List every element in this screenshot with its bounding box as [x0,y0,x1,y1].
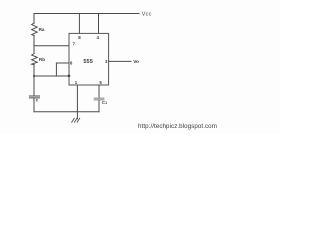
wire pin 5 branch [98,85,100,112]
svg-text:555: 555 [83,59,92,65]
svg-text:Rb: Rb [39,57,45,62]
wire rail pin2 junction to capacitor C [33,76,35,96]
svg-text:Vcc: Vcc [142,11,152,17]
wire pin 6 vertical drop [55,63,57,76]
svg-text:C1: C1 [102,100,107,105]
capacitor C plates [29,96,39,98]
wire pin 6 horizontal [56,62,69,64]
wire pin 8 [78,14,80,34]
node junction dot pin2 rail [33,75,35,77]
wire pin 1 to ground [76,85,78,119]
svg-text:Vo: Vo [133,59,139,65]
wire Vcc top rail [34,13,139,15]
wire capacitor C to bottom rail [33,98,35,112]
wire pin 3 output [109,60,131,62]
wire Rb to pin2 junction [33,65,35,76]
resistor Ra [32,23,38,36]
op-amp U1 555 IC body [69,33,109,85]
svg-text:http://techpicz.blogspot.com: http://techpicz.blogspot.com [138,123,217,130]
wire pin 7 [34,45,69,47]
wire rail pin7 to Rb [33,46,35,54]
svg-text:6: 6 [70,61,73,66]
svg-text:8: 8 [78,35,81,40]
svg-text:Ra: Ra [39,27,45,32]
ground [72,118,80,122]
svg-text:c: c [36,99,39,104]
svg-text:4: 4 [97,35,100,40]
svg-text:1: 1 [75,80,78,85]
wire ground bottom rail [34,111,99,113]
svg-text:3: 3 [105,59,108,64]
resistor Rb [32,54,38,65]
svg-text:7: 7 [73,42,76,47]
wire pin 2 [34,75,69,77]
wire Ra to pin7 junction [33,36,35,46]
capacitor C1 plates [94,98,103,100]
wire pin 4 [98,14,100,34]
node junction dot pin2 at IC edge [68,75,71,78]
svg-text:5: 5 [99,80,102,85]
wire left rail top segment [33,14,35,24]
